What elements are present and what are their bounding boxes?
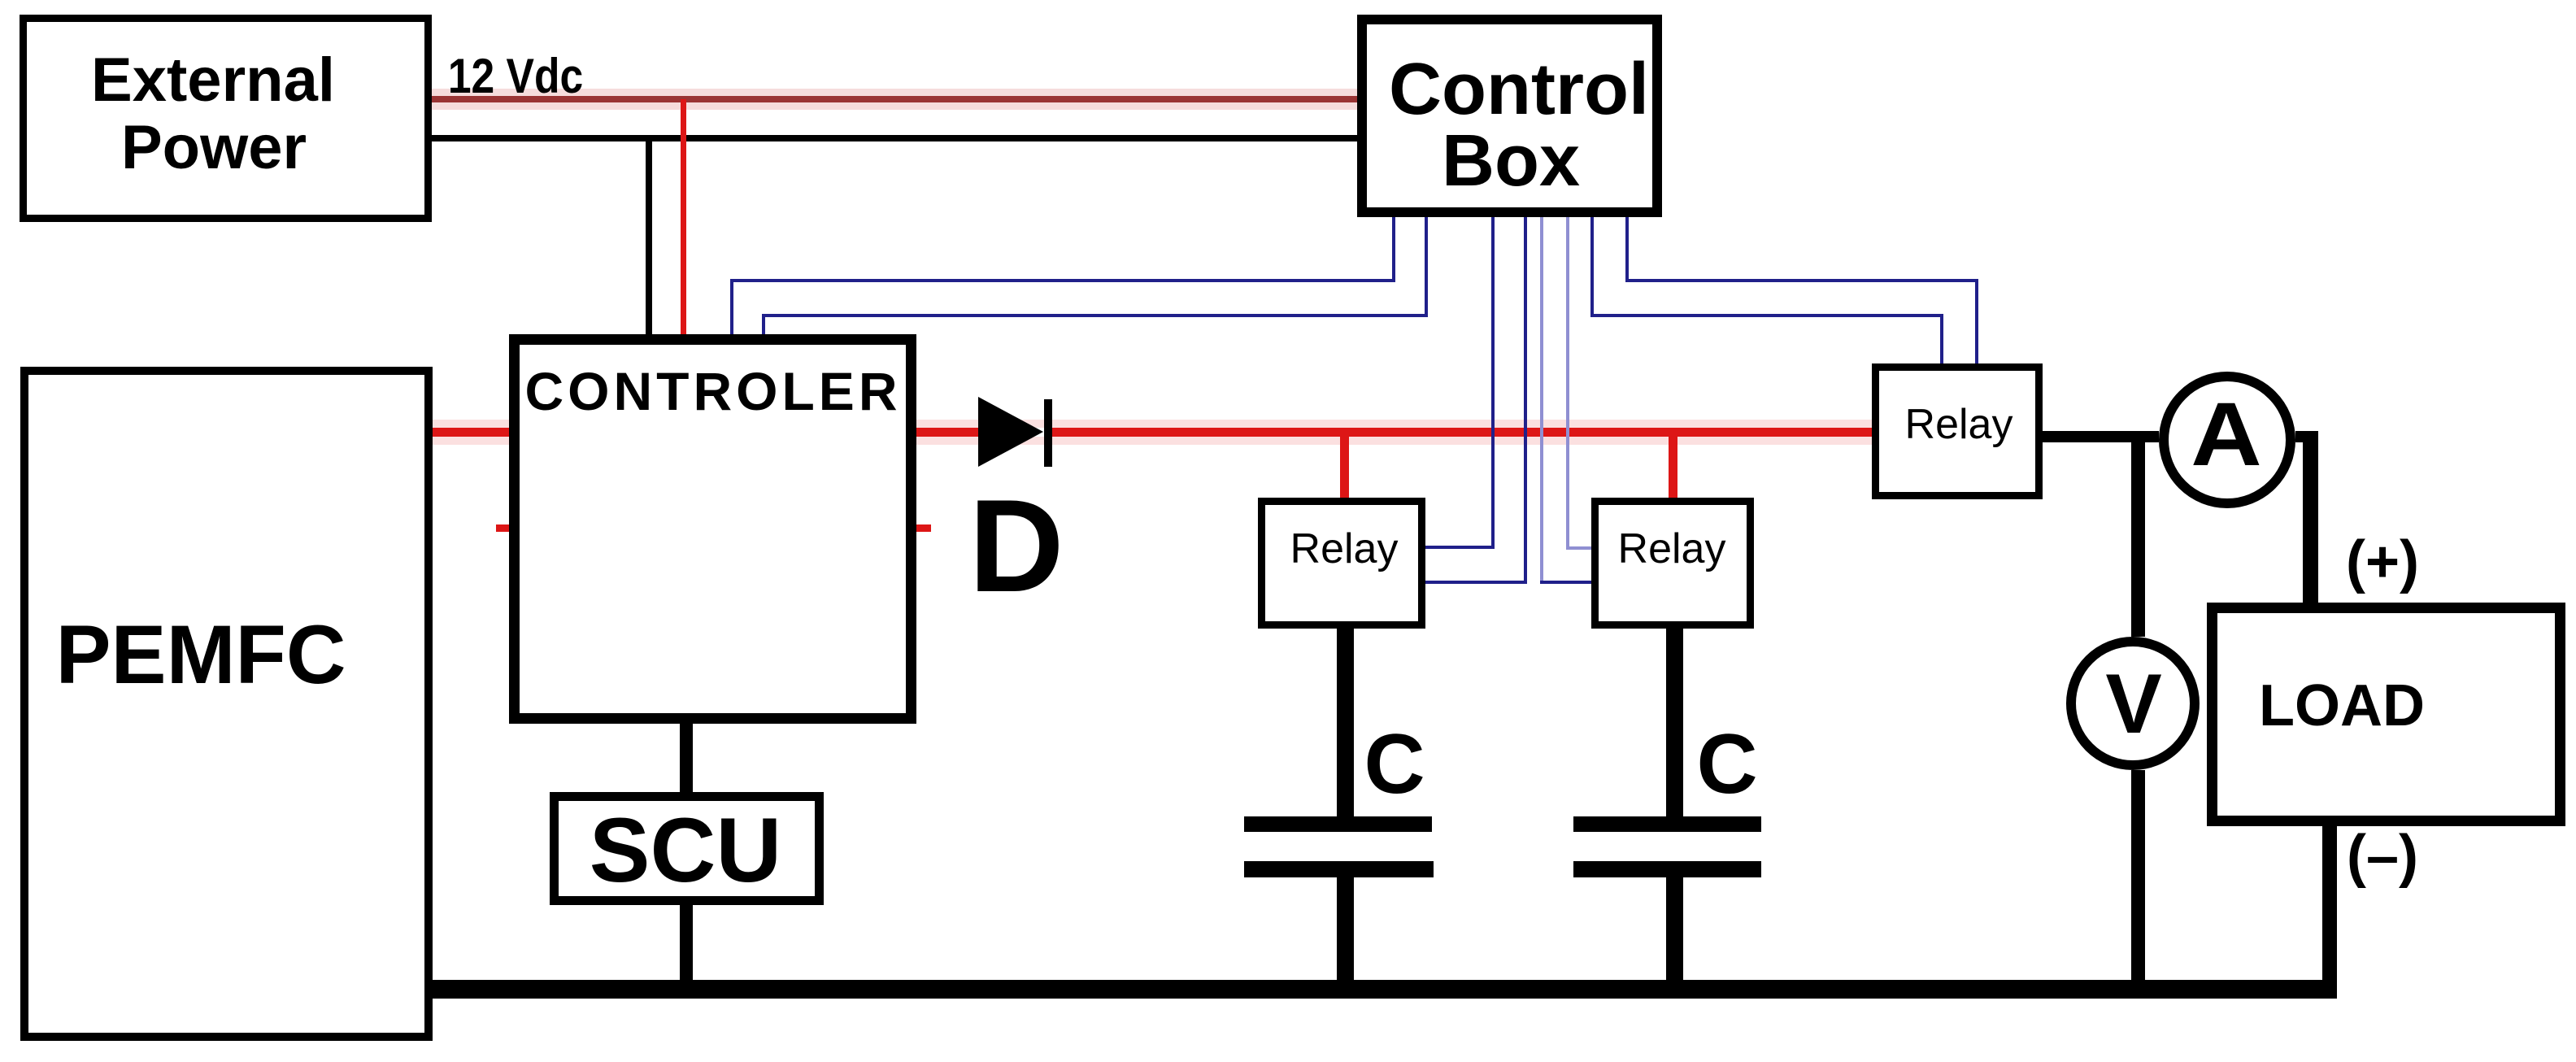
block PEMFC bbox=[20, 367, 433, 1041]
voltmeter V bbox=[2066, 637, 2200, 770]
wire blue3 Control Box to Relay1 vertical bbox=[1491, 215, 1495, 549]
wire red vertical to Relay2 top bbox=[1669, 432, 1677, 498]
block SCU bbox=[550, 792, 824, 905]
wire black Relay3 to ammeter bbox=[2039, 431, 2159, 442]
wire blue1 vertical into CONTROLER bbox=[730, 282, 733, 334]
label C2 bbox=[1696, 722, 1757, 807]
label D bbox=[969, 481, 1064, 612]
wire blue7 horizontal bbox=[1590, 314, 1943, 317]
node red tick right of CONTROLER bbox=[914, 524, 931, 532]
block CONTROLER U1 bbox=[509, 334, 916, 724]
wire black ammeter right stub bbox=[2295, 431, 2318, 442]
wire red vertical to Relay1 top bbox=[1340, 432, 1349, 498]
halo below red bus main seg bbox=[914, 437, 1876, 445]
wire blue2 Control Box stub bbox=[1425, 215, 1428, 317]
capacitor C1 bottom plate bbox=[1244, 861, 1434, 877]
block External Power bbox=[20, 15, 432, 222]
node red tick left of CONTROLER bbox=[496, 524, 513, 532]
diode D cathode bar bbox=[1044, 399, 1052, 467]
wire 12Vdc red horizontal from External Power to Control Box bbox=[432, 96, 1357, 102]
wire red main bus diode to right Relay bbox=[1049, 428, 1876, 437]
capacitor C2 top plate bbox=[1573, 816, 1761, 832]
wire blue2 vertical into CONTROLER bbox=[762, 317, 765, 334]
wire red vertical drop from 12Vdc line to CONTROLER top bbox=[681, 99, 686, 334]
relay K2 bbox=[1591, 498, 1754, 629]
wire black Relay2 to capacitor C2 bbox=[1666, 629, 1683, 816]
ammeter A bbox=[2159, 372, 2295, 508]
junction: wire black vertical to voltmeter bbox=[2131, 431, 2145, 637]
wire black C1 to bottom bus bbox=[1337, 877, 1354, 980]
wire black vertical drop from black line to CONTROLER top bbox=[646, 138, 652, 334]
wire blue2 horizontal bbox=[762, 314, 1428, 317]
wire blue7 Control Box to Relay3 stub bbox=[1590, 215, 1594, 317]
wire blue8 vertical into Relay3 bbox=[1975, 282, 1978, 366]
wire blue3 horizontal into Relay1 bbox=[1425, 546, 1495, 549]
capacitor C2 bottom plate bbox=[1573, 861, 1761, 877]
wire blue8 horizontal bbox=[1625, 279, 1978, 282]
label (+) bbox=[2346, 533, 2419, 591]
wire blue8 Control Box stub bbox=[1625, 215, 1629, 282]
wire black SCU to bottom bus bbox=[680, 905, 693, 980]
block LOAD bbox=[2207, 603, 2565, 826]
halo below 12Vdc maroon line bbox=[432, 102, 1357, 110]
relay K1 bbox=[1258, 498, 1425, 629]
wire red PEMFC to CONTROLER bbox=[433, 428, 513, 437]
wire black CONTROLER to SCU bbox=[680, 724, 693, 792]
diode D triangle bbox=[978, 397, 1043, 467]
wire black C2 to bottom bus bbox=[1666, 877, 1683, 980]
wire blue6 light Control Box to Relay2 vertical bbox=[1566, 215, 1569, 550]
halo above 12Vdc maroon line bbox=[432, 89, 1357, 96]
halo above red bus left seg bbox=[433, 420, 509, 428]
wire black horizontal from External Power to Control Box bbox=[432, 135, 1357, 141]
label (-) bbox=[2347, 827, 2418, 886]
block Control Box bbox=[1357, 15, 1662, 217]
halo above red bus main seg bbox=[914, 420, 1876, 428]
wire blue5 horizontal into Relay2 bbox=[1540, 581, 1591, 584]
label 12 Vdc bbox=[448, 52, 583, 101]
halo below red bus left seg bbox=[433, 437, 509, 445]
wire blue6 horizontal into Relay2 bbox=[1566, 546, 1591, 550]
wire black LOAD bottom vertical bbox=[2322, 826, 2337, 999]
wire red CONTROLER to diode bbox=[914, 428, 984, 437]
wire blue5 light Control Box to Relay2 vertical bbox=[1540, 215, 1543, 584]
wire blue1 horizontal bbox=[730, 279, 1395, 282]
wire blue4 horizontal into Relay1 bbox=[1425, 581, 1527, 584]
relay K3 bbox=[1872, 363, 2043, 499]
wire blue7 vertical into Relay3 bbox=[1940, 317, 1943, 366]
wire black vertical ammeter to LOAD top bbox=[2303, 431, 2318, 603]
wire blue4 Control Box to Relay1 vertical bbox=[1524, 215, 1527, 584]
wire blue1 Control Box to CONTROLER (stub) bbox=[1392, 215, 1395, 282]
capacitor C1 top plate bbox=[1244, 816, 1432, 832]
wire black voltmeter to bottom bus bbox=[2131, 770, 2145, 999]
label C1 bbox=[1364, 722, 1425, 807]
wire black bottom bus bbox=[433, 980, 2337, 999]
wire black Relay1 to capacitor C1 bbox=[1337, 629, 1354, 816]
